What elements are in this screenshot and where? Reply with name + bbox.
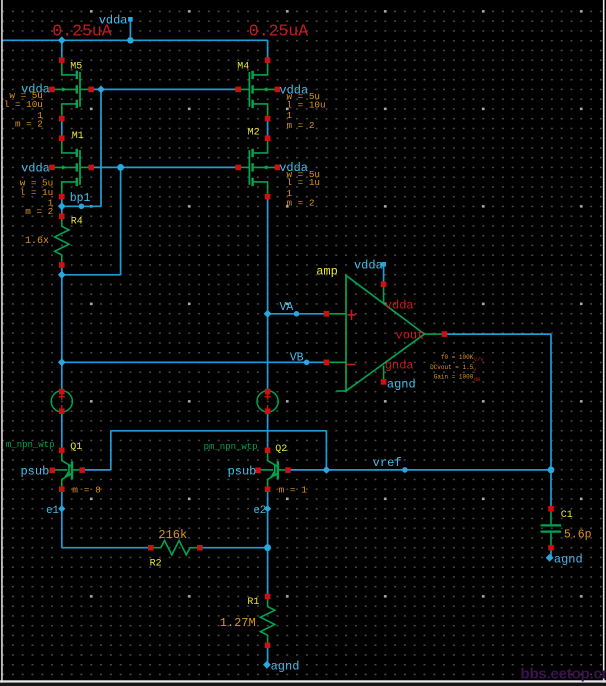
- svg-text:M5: M5: [70, 61, 82, 72]
- svg-text:216k: 216k: [158, 528, 187, 542]
- svg-text:vdda: vdda: [21, 162, 50, 176]
- svg-text:pm_npn_wtp: pm_npn_wtp: [204, 442, 258, 452]
- wire vdda top rail: [3, 39, 268, 41]
- current source I1: [51, 391, 72, 412]
- svg-text:agnd: agnd: [387, 377, 416, 391]
- svg-text:M4: M4: [237, 61, 249, 72]
- svg-text:R1: R1: [247, 597, 259, 608]
- svg-text:Q2: Q2: [275, 444, 287, 455]
- wire M5 source to M1 drain: [61, 121, 63, 137]
- svg-text:l = 10u: l = 10u: [4, 99, 43, 110]
- svg-text:dB: dB: [474, 376, 481, 383]
- svg-text:DCvout = 1.5: DCvout = 1.5: [430, 364, 474, 371]
- capacitor C1: [550, 511, 552, 524]
- wire vdda label stub: [129, 20, 131, 41]
- wire node VB to op-amp: [62, 361, 327, 363]
- wire vout down to C1: [550, 334, 552, 510]
- node e1 marker: [58, 505, 65, 512]
- svg-text:m = 2: m = 2: [15, 119, 43, 130]
- node agnd marker C1: [546, 554, 554, 562]
- wire I2 to Q2 collector: [267, 411, 269, 448]
- node VA label dot: [294, 311, 300, 317]
- svg-text:psub: psub: [228, 464, 257, 478]
- wire feedback down to vref: [325, 431, 327, 470]
- wire Q1 base right: [83, 469, 111, 471]
- node bp1 junction: [58, 202, 66, 210]
- svg-text:0.25uA: 0.25uA: [52, 22, 112, 41]
- transistor M2: [253, 141, 268, 153]
- svg-text:C1: C1: [561, 510, 573, 521]
- wire M1 source to R4: [61, 198, 63, 214]
- svg-text:vdda: vdda: [354, 259, 383, 273]
- transistor Q1: [62, 453, 72, 466]
- wire R4 bottom horizontal: [62, 274, 121, 276]
- svg-text:m = 2: m = 2: [25, 206, 53, 217]
- wire bp1 horizontal: [62, 205, 101, 207]
- node vdda label pin top: [128, 17, 133, 22]
- svg-text:m = 2: m = 2: [287, 120, 315, 131]
- junction rail-vdda: [127, 37, 134, 44]
- svg-text:bbs.eetop.cn: bbs.eetop.cn: [521, 666, 606, 683]
- wire M4 source to M2 drain: [267, 121, 269, 137]
- node agnd marker R1: [263, 661, 271, 669]
- svg-text:m = 8: m = 8: [72, 484, 101, 495]
- svg-text:gnda: gnda: [385, 359, 414, 373]
- op-amp plus input mark: [347, 310, 355, 320]
- svg-text:e1: e1: [46, 505, 59, 517]
- wire M2 source to current source I2: [267, 198, 269, 391]
- wire Q1 base up: [110, 431, 112, 470]
- svg-text:M2: M2: [248, 127, 260, 138]
- svg-text:V/V: V/V: [474, 356, 485, 363]
- junction rail-M5: [58, 36, 66, 44]
- transistor Q2: [268, 453, 278, 466]
- wire M1 gate rail down to R4 bottom: [120, 167, 122, 274]
- svg-text:amp: amp: [316, 265, 338, 279]
- svg-text:m = 2: m = 2: [287, 198, 315, 209]
- node VA junction: [264, 310, 272, 318]
- svg-text:l = 1u: l = 1u: [20, 187, 53, 198]
- wire R1 to agnd: [267, 647, 269, 665]
- node VB junction: [58, 358, 66, 366]
- svg-text:VA: VA: [280, 301, 294, 314]
- resistor R2: [154, 547, 161, 549]
- svg-text:R4: R4: [71, 216, 83, 227]
- node bp1 label dot: [79, 204, 85, 210]
- wire I1 to Q1 collector: [61, 411, 63, 448]
- current source I2: [257, 391, 278, 412]
- junction R4 bottom: [58, 271, 66, 279]
- junction gate rail 2: [117, 164, 124, 171]
- node VB label dot: [304, 360, 310, 366]
- svg-text:M1: M1: [72, 131, 84, 142]
- svg-text:m = 1: m = 1: [279, 484, 308, 495]
- wire Q1 emitter down: [61, 491, 63, 548]
- wire R2 to e2 column: [200, 547, 268, 549]
- wire Q2 emitter to R1: [267, 491, 269, 596]
- junction gate rail bp1: [97, 86, 105, 94]
- wire vout horizontal: [447, 333, 552, 335]
- node vref label dot: [402, 467, 408, 473]
- wire rail to M4 drain: [267, 40, 269, 58]
- wire gate rail M1-M2: [91, 166, 238, 168]
- svg-text:m_npn_wtp: m_npn_wtp: [6, 440, 55, 450]
- wire e1 row to R2: [62, 547, 151, 549]
- svg-text:vref: vref: [373, 456, 402, 470]
- svg-text:l = 10u: l = 10u: [287, 99, 326, 110]
- svg-text:1.27M: 1.27M: [220, 616, 256, 630]
- svg-text:Gain = 1000: Gain = 1000: [434, 374, 474, 381]
- wire gate rail M5-M4: [91, 88, 238, 90]
- wire gate rail down to bp1: [100, 89, 102, 206]
- svg-text:R2: R2: [150, 558, 162, 569]
- resistor R1: [267, 599, 269, 607]
- junction R2-e2: [264, 544, 271, 551]
- wire net vref: [289, 469, 551, 471]
- svg-text:psub: psub: [20, 464, 49, 478]
- junction feedback-vref: [323, 466, 331, 474]
- transistor M5: [62, 63, 77, 75]
- svg-text:agnd: agnd: [271, 660, 300, 674]
- resistor R4: [61, 219, 63, 227]
- wire op-amp vdda stub: [383, 266, 385, 284]
- node vdda label pin amp: [381, 262, 386, 267]
- frame bottom border: [0, 680, 606, 682]
- wire node VA to op-amp: [268, 313, 328, 315]
- svg-text:vout: vout: [396, 328, 425, 342]
- svg-text:5.6p: 5.6p: [564, 529, 592, 542]
- svg-text:l = 1u: l = 1u: [287, 177, 320, 188]
- wire feedback horizontal: [111, 430, 327, 432]
- wire rail to M5 drain: [61, 40, 63, 58]
- svg-text:1.6x: 1.6x: [25, 236, 49, 247]
- svg-text:vdda: vdda: [385, 298, 414, 312]
- svg-text:f0 = 100K: f0 = 100K: [441, 354, 474, 361]
- svg-text:e2: e2: [253, 505, 266, 517]
- svg-text:bp1: bp1: [70, 192, 91, 205]
- wire R4 bottom to current source I1: [61, 267, 63, 392]
- svg-text:agnd: agnd: [554, 552, 583, 566]
- frame right border: [603, 0, 605, 683]
- transistor M4: [253, 63, 268, 75]
- frame left border: [1, 0, 3, 683]
- svg-text:Q1: Q1: [70, 442, 82, 453]
- op-amp minus input mark: [346, 364, 355, 366]
- svg-text:VB: VB: [290, 352, 304, 365]
- transistor M1: [62, 141, 77, 153]
- node e2 marker: [264, 505, 271, 512]
- junction vref-vout: [548, 467, 555, 474]
- wire C1 to agnd: [550, 546, 552, 558]
- op-amp U1 amp: [346, 275, 424, 391]
- svg-text:0.25uA: 0.25uA: [249, 22, 309, 41]
